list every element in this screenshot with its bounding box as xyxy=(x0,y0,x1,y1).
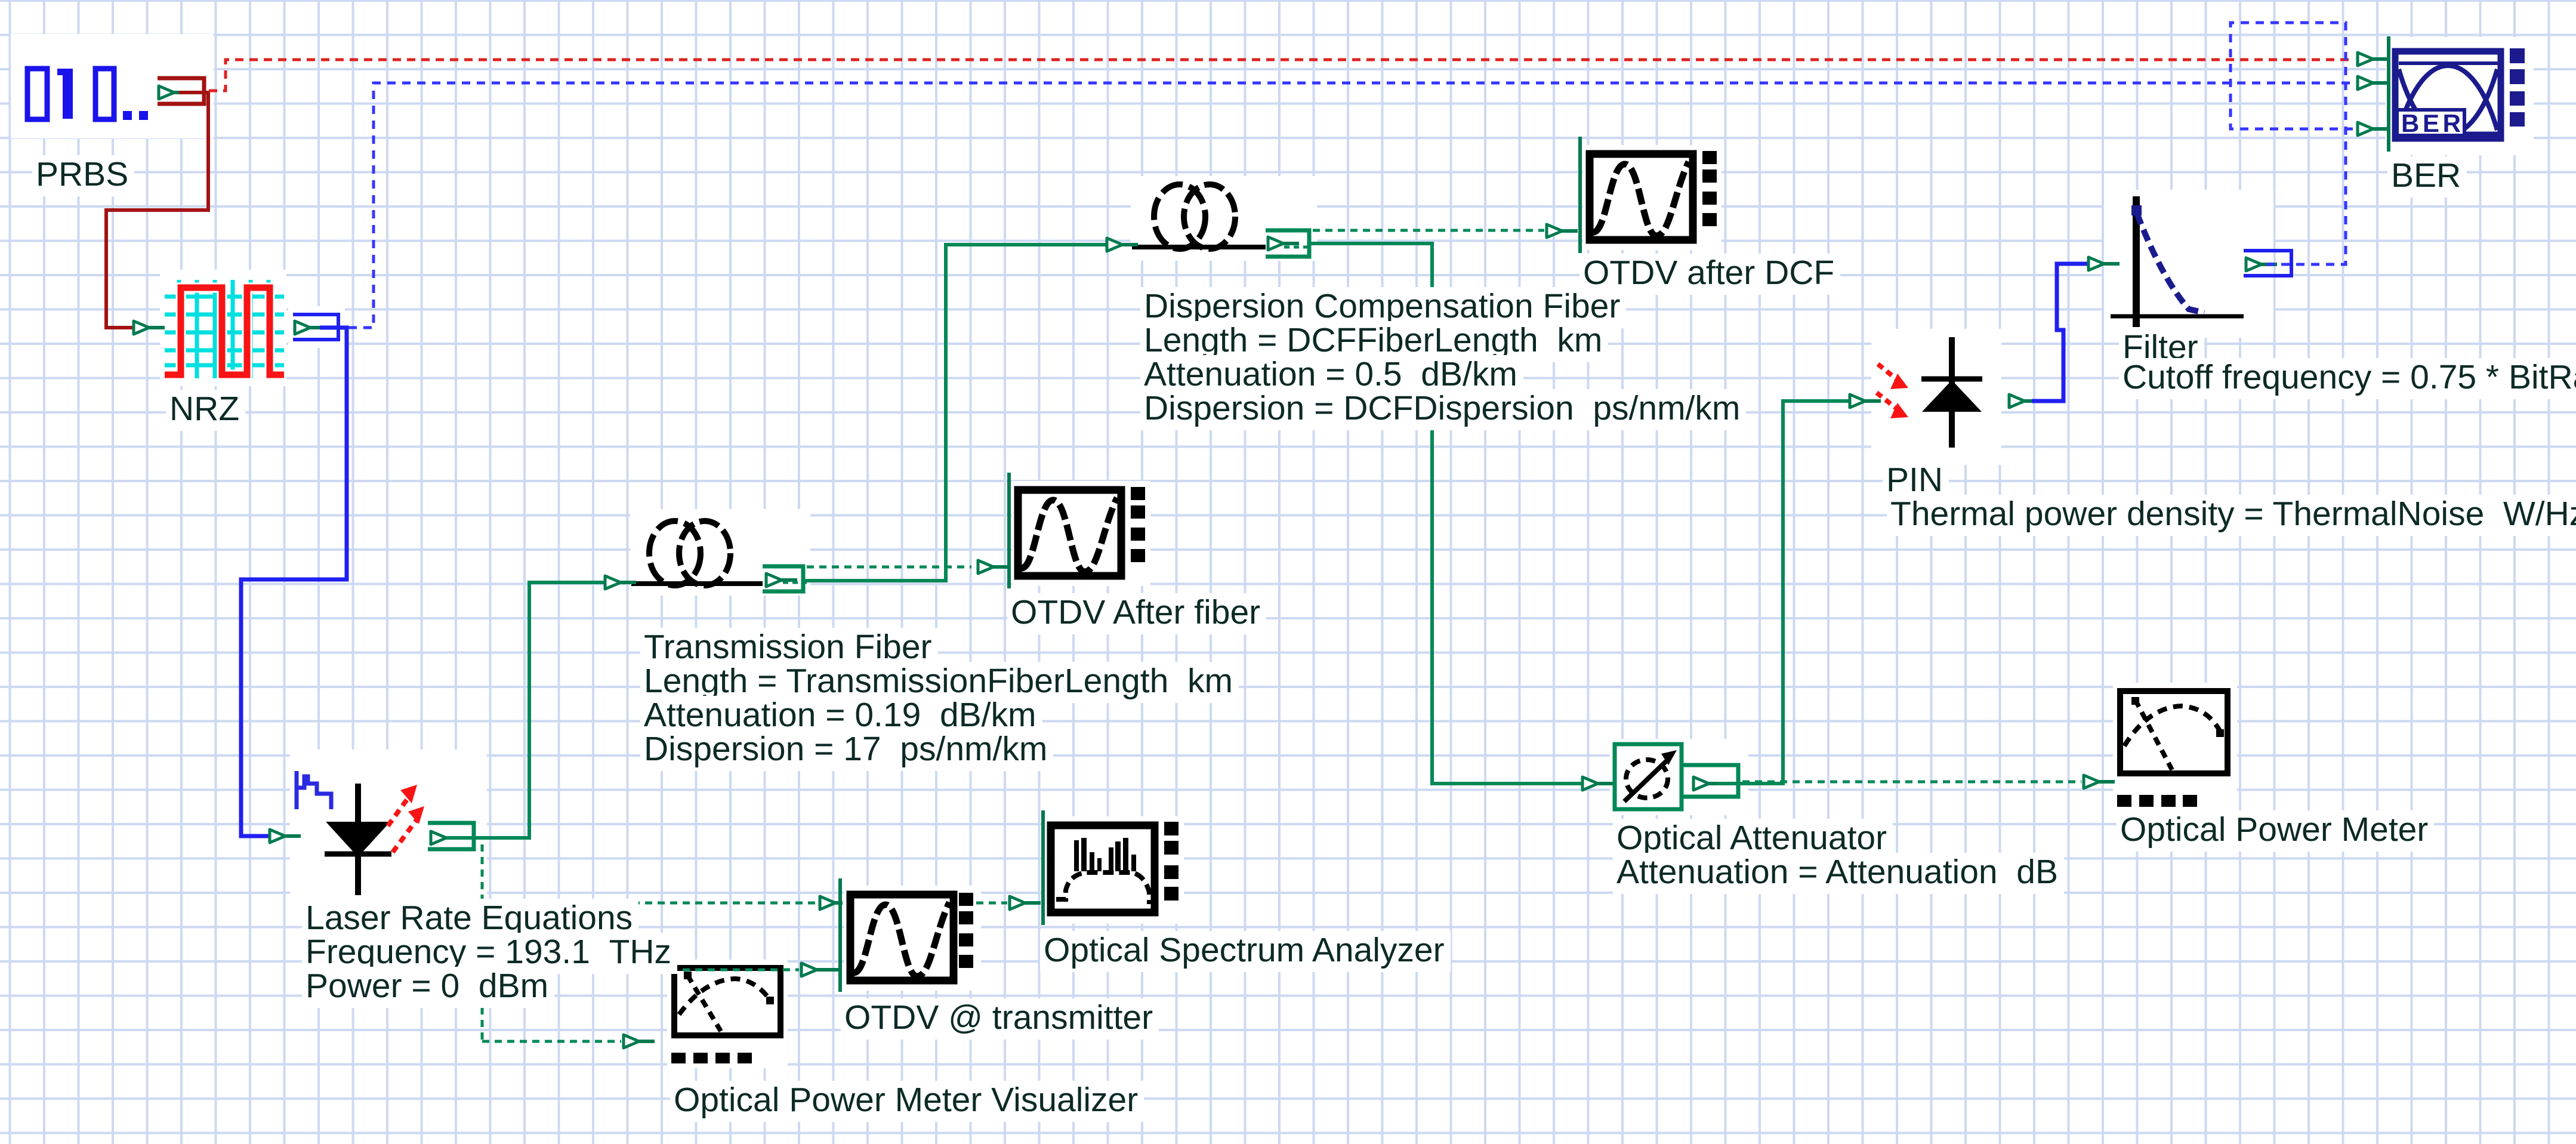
dashed monitor wire DCF to OTDV after DCF xyxy=(1313,229,1544,232)
Laser Rate Equations icon xyxy=(297,771,424,895)
dashed monitor trunk from Laser output xyxy=(481,844,484,1041)
label NRZ xyxy=(166,390,245,431)
label PIN block xyxy=(1883,461,1949,502)
label BER xyxy=(2387,156,2467,198)
white canvas behind Laser icon xyxy=(290,750,487,902)
NRZ output arrow xyxy=(295,321,326,334)
Laser input arrow xyxy=(270,830,301,843)
PRBS output port bracket xyxy=(158,78,204,104)
Dispersion Compensation Fiber coil icon xyxy=(1132,184,1266,249)
Optical Spectrum Analyzer icon xyxy=(1043,810,1179,925)
white canvas behind Transmission Fiber icon xyxy=(630,509,810,596)
Laser output arrow xyxy=(431,831,462,844)
BER input 2 arrow xyxy=(2358,76,2389,90)
dashed stub inside DCF output bracket xyxy=(1284,246,1313,249)
PRBS generator icon 010.. xyxy=(27,69,148,120)
optical wire Optical Attenuator to PIN xyxy=(1717,401,1849,784)
dashed monitor wire Laser to OTDV at transmitter input 2 xyxy=(482,969,799,972)
wire PRBS to NRZ (binary, dark red) xyxy=(106,92,208,328)
white canvas behind Optical Power Meter Visualizer icon xyxy=(667,960,788,1068)
optical wire DCF to Optical Attenuator xyxy=(1310,243,1581,784)
white canvas behind OTDV at transmitter icon xyxy=(844,886,981,991)
Optical Power Meter icon xyxy=(2117,691,2228,807)
electrical wire PIN to Filter xyxy=(2032,264,2087,401)
Transmission Fiber output port bracket xyxy=(763,566,803,591)
white canvas behind OTDV after DCF icon xyxy=(1583,145,1722,250)
dashed monitor wire Laser to Optical Power Meter Visualizer xyxy=(482,1040,621,1043)
label Filter block xyxy=(2119,328,2204,369)
OTDV After fiber icon xyxy=(1009,473,1145,588)
optical wire Laser to Transmission Fiber xyxy=(446,582,604,838)
white canvas behind DCF icon xyxy=(1131,176,1317,261)
NRZ input arrow xyxy=(134,321,165,334)
Optical Power Meter Visualizer icon xyxy=(671,968,780,1063)
dashed electrical wire NRZ to BER input 2 xyxy=(348,83,2354,328)
dashed monitor wire Laser to OTDV at transmitter input 1 xyxy=(482,902,819,905)
Filter output arrow xyxy=(2246,258,2277,271)
white canvas behind PIN icon xyxy=(1871,329,2001,465)
label Optical Power Meter xyxy=(2117,810,2434,852)
white canvas behind OTDV After fiber icon xyxy=(1012,481,1150,586)
PIN output arrow xyxy=(2009,394,2040,408)
BER input 1 arrow xyxy=(2358,53,2389,66)
BER input 3 arrow xyxy=(2358,122,2389,135)
dashed stub inside fiber output bracket xyxy=(783,581,807,584)
Transmission Fiber coil icon xyxy=(631,521,763,585)
label Optical Spectrum Analyzer xyxy=(1040,931,1451,972)
BER analyzer icon xyxy=(2389,36,2525,152)
OTDV after DCF input arrow xyxy=(1547,224,1578,238)
Filter output port bracket xyxy=(2244,251,2291,276)
white canvas behind BER icon xyxy=(2386,37,2534,155)
Filter icon xyxy=(2111,196,2244,327)
white canvas behind NRZ icon xyxy=(160,270,286,386)
OTDV after DCF icon xyxy=(1580,137,1717,253)
dashed binary wire PRBS to BER input 1 xyxy=(209,60,2354,91)
label OTDV after DCF xyxy=(1579,254,1840,295)
dashed monitor wire segment to Optical Spectrum Analyzer xyxy=(976,902,1007,905)
DCF output port bracket xyxy=(1266,230,1309,257)
white canvas behind Optical Power Meter icon xyxy=(2113,683,2237,813)
white canvas behind Optical Attenuator icon xyxy=(1610,739,1748,815)
Optical Power Meter Visualizer input arrow xyxy=(624,1035,655,1048)
Optical Power Meter input arrow xyxy=(2084,775,2115,788)
PIN input arrow xyxy=(1850,394,1881,408)
label PRBS xyxy=(32,155,134,196)
Optical Attenuator icon xyxy=(1615,744,1682,809)
label Laser Rate Equations block xyxy=(302,899,638,940)
white canvas behind PRBS icon xyxy=(11,34,214,138)
dashed electrical wire Filter to BER input 3 xyxy=(2231,23,2354,264)
Optical Spectrum Analyzer input arrow xyxy=(1010,896,1041,909)
svg-text:BER: BER xyxy=(2401,109,2461,137)
Transmission Fiber input arrow xyxy=(605,576,636,589)
PRBS output arrow xyxy=(159,86,190,99)
OTDV After fiber input arrow xyxy=(978,560,1009,573)
Optical Attenuator output arrow xyxy=(1693,777,1724,790)
DCF output arrow xyxy=(1268,237,1299,250)
dashed monitor wire Optical Attenuator to Optical Power Meter xyxy=(1742,781,2081,784)
white canvas behind Filter icon xyxy=(2104,190,2273,338)
Laser output port bracket xyxy=(428,823,474,849)
label Optical Attenuator block xyxy=(1613,819,1893,860)
Filter input arrow xyxy=(2088,257,2120,270)
PIN photodiode icon xyxy=(1877,337,1982,448)
white canvas behind OSA icon xyxy=(1044,816,1184,924)
optical wire Transmission Fiber to DCF xyxy=(804,245,1106,581)
Optical Attenuator input arrow xyxy=(1582,777,1614,790)
label OTDV at transmitter xyxy=(841,998,1159,1040)
NRZ output port bracket xyxy=(293,314,338,340)
OTDV at transmitter input 2 arrow xyxy=(801,963,832,976)
label Optical Power Meter Visualizer xyxy=(670,1081,1144,1122)
OTDV at transmitter icon xyxy=(840,878,973,992)
Transmission Fiber output arrow xyxy=(766,573,797,587)
wire NRZ to Laser (electrical, blue) xyxy=(241,328,347,836)
label OTDV After fiber xyxy=(1007,593,1266,634)
Optical Attenuator output port bracket xyxy=(1683,765,1738,797)
dashed monitor wire Transmission Fiber to OTDV After fiber xyxy=(807,566,971,569)
DCF input arrow xyxy=(1107,238,1138,251)
NRZ pulse generator icon xyxy=(165,280,284,378)
OTDV at transmitter input 1 arrow xyxy=(820,896,843,909)
label Dispersion Compensation Fiber block xyxy=(1140,287,1626,328)
label Transmission Fiber block xyxy=(640,628,938,669)
